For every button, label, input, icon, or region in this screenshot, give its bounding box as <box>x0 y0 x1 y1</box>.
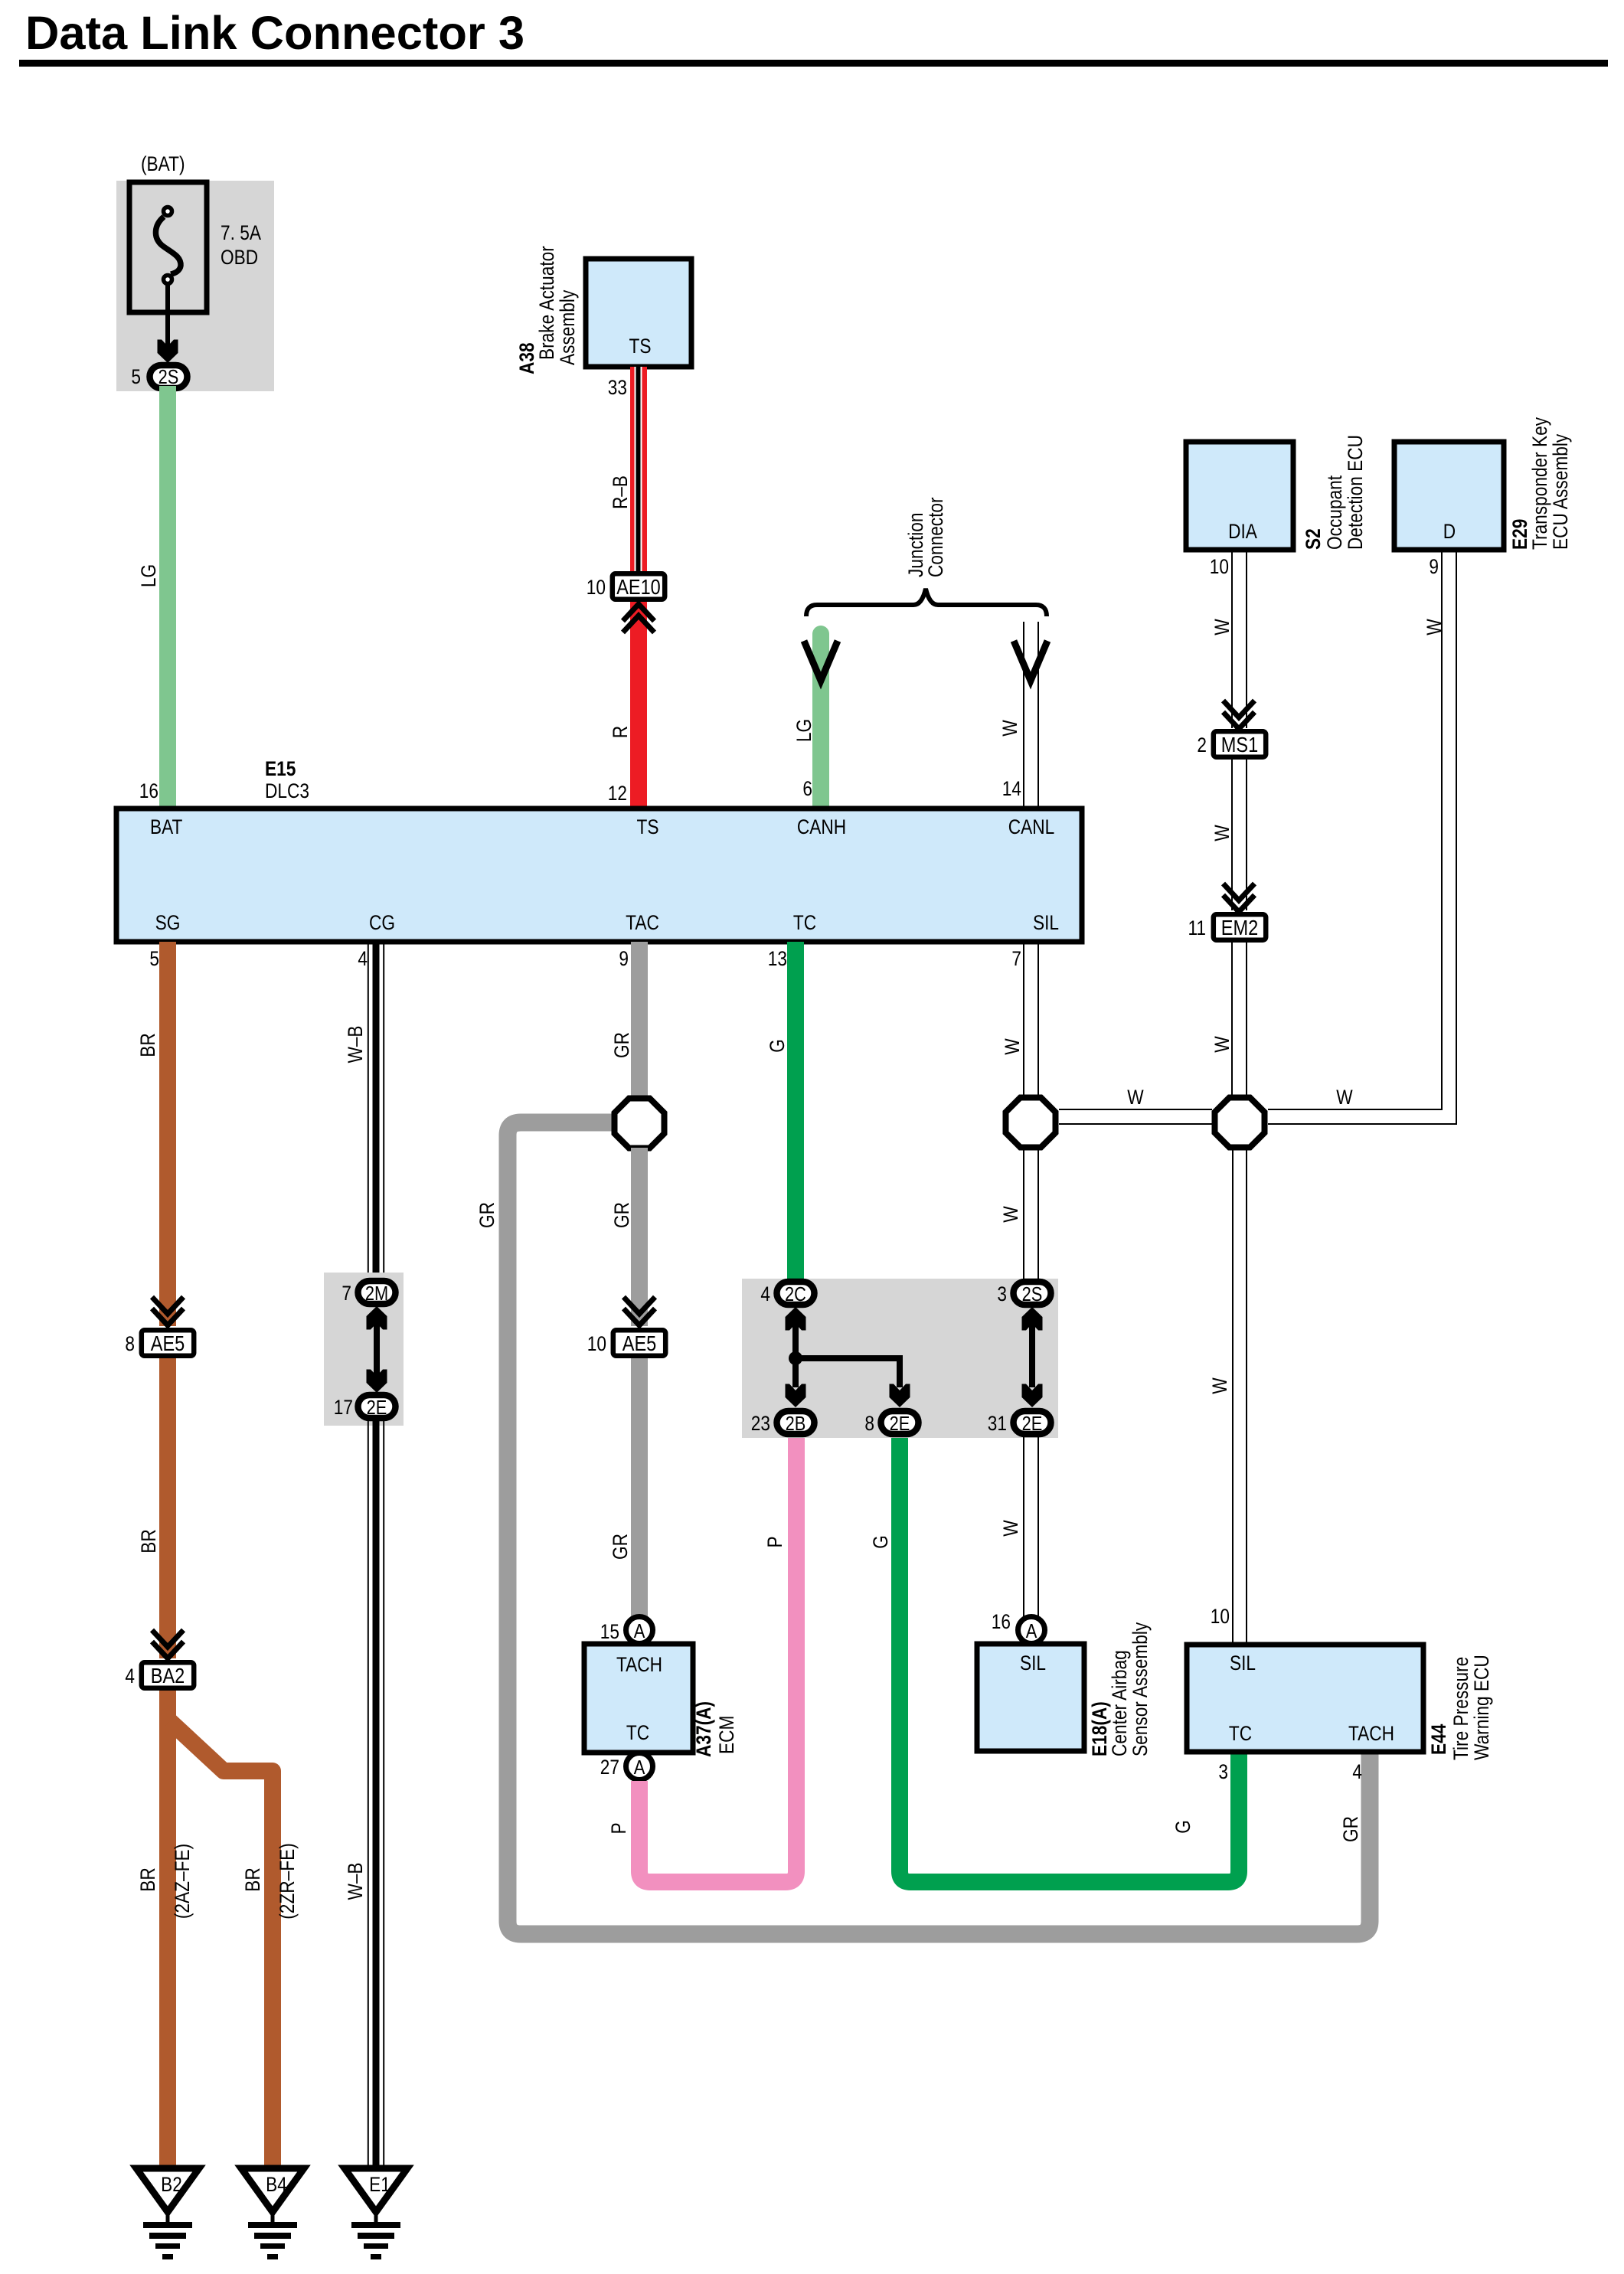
svg-text:10: 10 <box>1210 555 1229 578</box>
arrow chevrons into BA2 <box>152 1630 184 1658</box>
connector 2E (pin 17) <box>358 1395 396 1418</box>
svg-text:G: G <box>1171 1820 1194 1834</box>
svg-text:11: 11 <box>1188 916 1207 939</box>
svg-text:(2AZ–FE): (2AZ–FE) <box>171 1844 194 1919</box>
connector BA2 (pin 4) <box>142 1662 194 1688</box>
svg-text:2E: 2E <box>890 1412 910 1435</box>
block E15 DLC3 <box>116 809 1082 942</box>
wire LG: fuse 2S to DLC3 BAT <box>159 386 176 809</box>
svg-text:R–B: R–B <box>609 475 632 509</box>
svg-text:DLC3: DLC3 <box>265 779 309 802</box>
junction octagon (SIL left) <box>1006 1098 1056 1148</box>
arrow link 2S to 2E(31) <box>1022 1307 1043 1407</box>
wire W-B: DLC3 CG to 2M <box>368 942 384 1279</box>
arrow chevrons into MS1 <box>1224 701 1255 729</box>
svg-text:A37(A): A37(A) <box>692 1701 715 1757</box>
svg-text:12: 12 <box>608 782 627 805</box>
svg-text:7: 7 <box>1011 947 1021 970</box>
svg-text:31: 31 <box>988 1412 1007 1435</box>
wire W: octagon to octagon (horizontal) <box>1059 1109 1212 1124</box>
svg-text:Occupant: Occupant <box>1323 475 1346 550</box>
arrow chevrons into EM2 <box>1224 884 1255 912</box>
svg-text:Detection ECU: Detection ECU <box>1344 435 1367 550</box>
pin circle A (16) <box>1018 1617 1045 1644</box>
svg-text:(BAT): (BAT) <box>141 152 185 175</box>
svg-text:W: W <box>999 1206 1022 1223</box>
svg-text:W: W <box>1001 1038 1024 1055</box>
svg-text:B2: B2 <box>161 2173 182 2196</box>
svg-text:TS: TS <box>629 335 652 358</box>
wire W: 2E(31) to E18 SIL <box>1024 1437 1038 1617</box>
svg-text:W: W <box>1336 1086 1353 1109</box>
svg-text:B4: B4 <box>266 2173 287 2196</box>
connector 2E (pin 31) <box>1014 1411 1051 1434</box>
svg-text:14: 14 <box>1002 777 1021 800</box>
wire W: octagon to 2S <box>1024 1148 1038 1279</box>
svg-text:BA2: BA2 <box>151 1664 185 1688</box>
wire GR: octagon to AE5 <box>631 1148 648 1326</box>
block E18(A) <box>977 1644 1084 1751</box>
svg-text:27: 27 <box>600 1756 619 1779</box>
svg-text:10: 10 <box>587 576 606 599</box>
svg-text:TC: TC <box>793 911 816 934</box>
svg-text:23: 23 <box>751 1412 770 1435</box>
svg-text:(2ZR–FE): (2ZR–FE) <box>276 1843 299 1920</box>
wire GR: AE5 to ECM TACH <box>631 1358 648 1617</box>
svg-text:16: 16 <box>139 779 158 802</box>
junction block gray background (2M/2E) <box>324 1273 404 1426</box>
svg-text:BR: BR <box>136 1867 159 1892</box>
svg-text:GR: GR <box>610 1032 633 1058</box>
svg-text:OBD: OBD <box>221 246 258 269</box>
connector AE5 (pin 10) <box>613 1330 665 1355</box>
wire W: DIA 10 to MS1 <box>1232 550 1247 728</box>
connector 2M (pin 7) <box>358 1281 396 1304</box>
block E44 <box>1187 1645 1423 1752</box>
arrow chevrons into AE5 <box>624 1297 655 1325</box>
svg-text:17: 17 <box>334 1396 353 1419</box>
wire W: EM2 to octagon <box>1232 943 1247 1096</box>
svg-text:2S: 2S <box>158 365 179 388</box>
wire LG: junction connector to DLC3 CANH <box>812 634 829 809</box>
svg-text:W: W <box>998 720 1021 737</box>
junction octagon (SIL right) <box>1215 1098 1265 1148</box>
svg-text:P: P <box>607 1822 630 1834</box>
svg-text:ECM: ECM <box>715 1716 738 1754</box>
brace <box>806 589 1047 616</box>
svg-text:2B: 2B <box>786 1412 806 1435</box>
svg-text:TS: TS <box>637 815 659 838</box>
wire BR: BA2 to ground B2 <box>159 1691 176 2168</box>
block E29 D <box>1394 442 1504 550</box>
svg-text:W: W <box>1211 619 1234 635</box>
connector 2S (pin 5) <box>150 365 188 388</box>
svg-text:A: A <box>1026 1619 1037 1642</box>
svg-text:G: G <box>766 1039 789 1053</box>
connector 2C (pin 4) <box>777 1282 815 1305</box>
svg-text:W: W <box>1211 825 1234 841</box>
svg-text:9: 9 <box>1429 555 1439 578</box>
fuse block gray background <box>116 181 274 391</box>
svg-text:A: A <box>634 1756 645 1779</box>
fuse 7.5A OBD body <box>129 182 207 312</box>
wire W: DLC3 SIL to octagon <box>1024 942 1038 1096</box>
svg-text:SIL: SIL <box>1020 1652 1046 1674</box>
svg-text:Tire Pressure: Tire Pressure <box>1449 1657 1472 1760</box>
svg-text:33: 33 <box>608 376 627 399</box>
svg-text:9: 9 <box>619 947 629 970</box>
wire BR: AE5 to BA2 <box>159 1358 176 1658</box>
arrow chevrons into AE10 <box>623 604 655 632</box>
wire W: octagon to E44 SIL <box>1233 1148 1247 1644</box>
svg-text:E1: E1 <box>369 2173 390 2196</box>
arrow link 2C to 2B with branch to 2E <box>786 1307 910 1407</box>
svg-text:2E: 2E <box>367 1396 387 1419</box>
svg-text:R: R <box>609 726 632 738</box>
svg-text:CG: CG <box>369 911 395 934</box>
svg-text:13: 13 <box>768 947 787 970</box>
svg-text:W: W <box>1127 1086 1144 1109</box>
arrow chevrons into AE5 <box>152 1297 184 1325</box>
svg-text:TC: TC <box>1229 1722 1252 1745</box>
ground B2 <box>136 2168 199 2259</box>
arrow into 2S <box>158 340 178 364</box>
pin circle A (15) <box>626 1617 653 1644</box>
svg-text:3: 3 <box>1218 1760 1228 1783</box>
svg-text:W: W <box>999 1520 1022 1537</box>
svg-text:Warning ECU: Warning ECU <box>1470 1655 1493 1760</box>
svg-text:W: W <box>1208 1377 1231 1394</box>
svg-text:BR: BR <box>241 1867 264 1892</box>
svg-text:GR: GR <box>1339 1816 1362 1842</box>
svg-text:Assembly: Assembly <box>556 289 579 365</box>
svg-text:Center Airbag: Center Airbag <box>1108 1650 1131 1756</box>
svg-text:3: 3 <box>997 1282 1007 1305</box>
connector EM2 (pin 11) <box>1214 914 1266 939</box>
wire GR: DLC3 TAC to junction octagon <box>631 942 648 1099</box>
svg-text:TC: TC <box>626 1721 649 1744</box>
svg-text:Connector: Connector <box>924 497 947 577</box>
wire GR: octagon left branch to E44 TACH (long loop) <box>508 1122 1370 1934</box>
title rule <box>19 60 1608 67</box>
connector 2S (pin 3) <box>1014 1282 1051 1305</box>
wire P: ECM TC to 2B (loop) <box>639 1438 796 1882</box>
svg-text:P: P <box>763 1536 786 1547</box>
svg-text:2: 2 <box>1197 733 1207 756</box>
svg-text:CANL: CANL <box>1008 815 1055 838</box>
ground B4 <box>241 2168 304 2259</box>
svg-text:Data Link Connector 3: Data Link Connector 3 <box>25 7 524 59</box>
svg-text:SIL: SIL <box>1033 911 1059 934</box>
svg-text:2E: 2E <box>1022 1412 1043 1435</box>
svg-text:LG: LG <box>792 719 815 742</box>
svg-text:BAT: BAT <box>150 815 182 838</box>
svg-text:AE5: AE5 <box>151 1331 185 1355</box>
svg-text:W: W <box>1423 619 1446 635</box>
svg-text:10: 10 <box>1211 1605 1230 1628</box>
svg-text:EM2: EM2 <box>1221 916 1258 939</box>
svg-text:8: 8 <box>125 1332 135 1355</box>
svg-text:15: 15 <box>600 1620 619 1643</box>
wire BR: DLC3 SG to AE5 <box>159 942 176 1326</box>
arrow link 2M to 2E <box>367 1306 387 1393</box>
svg-text:W–B: W–B <box>344 1862 367 1900</box>
arrow into junction connector (CANH) <box>804 641 838 681</box>
svg-text:D: D <box>1443 520 1456 543</box>
svg-text:ECU Assembly: ECU Assembly <box>1549 433 1572 550</box>
svg-text:2C: 2C <box>785 1282 806 1305</box>
svg-text:5: 5 <box>149 947 159 970</box>
connector MS1 (pin 2) <box>1214 731 1266 756</box>
svg-text:BR: BR <box>136 1033 159 1057</box>
svg-text:5: 5 <box>131 365 141 388</box>
svg-text:W–B: W–B <box>344 1025 367 1063</box>
wire W: MS1 to EM2 <box>1232 760 1247 910</box>
svg-text:Sensor Assembly: Sensor Assembly <box>1129 1622 1152 1756</box>
svg-text:4: 4 <box>760 1282 770 1305</box>
connector AE10 (pin 10) <box>613 573 665 599</box>
connector 2B (pin 23) <box>777 1411 815 1434</box>
wire W: E29 9 to junction (corner) <box>1268 550 1457 1125</box>
wire G: 2E(8) to E44 TC (loop) <box>900 1438 1239 1882</box>
svg-text:GR: GR <box>610 1202 633 1228</box>
wire W: junction connector to DLC3 CANL <box>1024 622 1038 809</box>
wire R: AE10 to DLC3 TS <box>630 602 647 809</box>
svg-text:6: 6 <box>802 777 812 800</box>
svg-text:DIA: DIA <box>1228 520 1257 543</box>
svg-text:CANH: CANH <box>797 815 846 838</box>
svg-text:16: 16 <box>992 1610 1011 1633</box>
svg-text:TACH: TACH <box>1348 1722 1394 1745</box>
junction block gray background <box>742 1279 1058 1438</box>
svg-text:TACH: TACH <box>616 1653 662 1676</box>
wire R-B: A38 TS to AE10 <box>630 367 647 571</box>
svg-text:2M: 2M <box>365 1282 388 1305</box>
svg-text:7. 5A: 7. 5A <box>221 221 261 244</box>
svg-text:W: W <box>1211 1036 1234 1053</box>
block ECM <box>584 1644 693 1753</box>
svg-text:SIL: SIL <box>1230 1652 1256 1674</box>
svg-text:10: 10 <box>587 1332 606 1355</box>
block A38 <box>586 259 691 367</box>
svg-text:BR: BR <box>137 1529 160 1554</box>
pin circle A (27) <box>626 1753 653 1780</box>
wire W-B: 2E to ground E1 <box>368 1421 384 2168</box>
svg-text:SG: SG <box>155 911 181 934</box>
svg-text:Transponder Key: Transponder Key <box>1528 417 1551 550</box>
svg-text:AE10: AE10 <box>616 575 661 599</box>
svg-text:4: 4 <box>1352 1760 1362 1783</box>
svg-text:7: 7 <box>341 1282 351 1305</box>
wire BR branch to ground B4 <box>170 1721 273 2168</box>
svg-text:MS1: MS1 <box>1221 733 1258 756</box>
block S2 DIA <box>1186 442 1293 550</box>
wire G: DLC3 TC to 2C <box>787 942 804 1280</box>
svg-text:G: G <box>869 1535 892 1549</box>
svg-text:AE5: AE5 <box>622 1331 657 1355</box>
svg-text:4: 4 <box>125 1665 135 1688</box>
svg-text:Brake Actuator: Brake Actuator <box>535 246 558 360</box>
connector 2E (pin 8) <box>881 1411 919 1434</box>
wire fuse to 2S <box>165 284 170 346</box>
svg-text:GR: GR <box>475 1202 498 1228</box>
ground E1 <box>345 2168 407 2259</box>
svg-text:4: 4 <box>358 947 368 970</box>
svg-text:2S: 2S <box>1022 1282 1043 1305</box>
svg-text:E15: E15 <box>265 757 296 780</box>
svg-text:GR: GR <box>609 1534 632 1560</box>
arrow into junction connector (CANL) <box>1014 641 1047 681</box>
svg-text:A: A <box>634 1619 645 1642</box>
svg-text:LG: LG <box>137 564 160 587</box>
svg-text:S2: S2 <box>1302 528 1325 550</box>
junction octagon (GR) <box>615 1099 665 1148</box>
svg-text:TAC: TAC <box>626 911 659 934</box>
connector AE5 (pin 8) <box>142 1330 194 1355</box>
svg-text:E44: E44 <box>1427 1724 1450 1755</box>
svg-text:8: 8 <box>864 1412 874 1435</box>
